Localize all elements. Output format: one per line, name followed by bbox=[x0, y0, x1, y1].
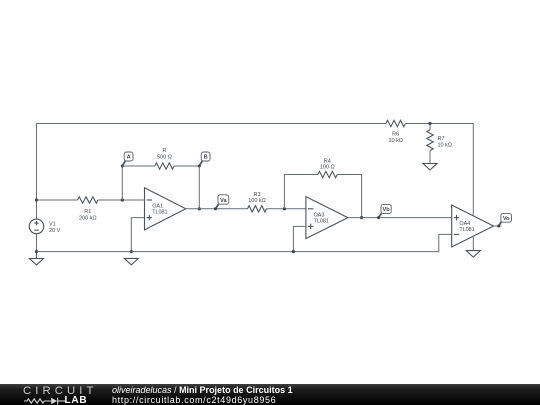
wire A to R bbox=[122, 165, 155, 167]
wire R4 down to OA3 output bbox=[337, 175, 361, 218]
svg-text:B: B bbox=[204, 155, 208, 161]
svg-text:TL081: TL081 bbox=[459, 227, 474, 233]
wire R7 bottom lead bbox=[429, 151, 431, 164]
svg-text:R6: R6 bbox=[392, 132, 399, 138]
ground under OA4 bbox=[466, 251, 480, 258]
wire V1 bottom lead bbox=[36, 234, 38, 252]
wire V1 top lead bbox=[36, 200, 38, 219]
svg-text:TL081: TL081 bbox=[314, 219, 329, 225]
resistor R7 bbox=[427, 130, 452, 151]
node junction OA3 ground rail bbox=[292, 250, 295, 253]
node junction OA1 ground bbox=[130, 250, 133, 253]
svg-text:OA4: OA4 bbox=[459, 221, 470, 227]
wire OA1 output to R3 bbox=[186, 208, 248, 210]
op-amp OA4 bbox=[452, 205, 494, 247]
node junction V1 plus bbox=[35, 198, 38, 201]
svg-text:R7: R7 bbox=[438, 136, 445, 142]
svg-text:A: A bbox=[127, 155, 131, 161]
node A flag bbox=[121, 152, 133, 168]
svg-text:20 V: 20 V bbox=[49, 228, 61, 234]
resistor R3 bbox=[248, 192, 267, 212]
wire R1 to OA1 inverting input bbox=[98, 199, 145, 201]
resistor R bbox=[155, 148, 174, 169]
op-amp OA3 bbox=[306, 197, 348, 239]
CircuitLab logo bbox=[23, 385, 103, 405]
wire OA3 output to OA4 bbox=[348, 217, 452, 219]
svg-text:R4: R4 bbox=[324, 158, 331, 164]
voltage source V1 bbox=[29, 219, 60, 234]
node junction A drop bbox=[121, 198, 124, 201]
wire R to B bbox=[174, 165, 199, 167]
svg-text:100 kΩ: 100 kΩ bbox=[248, 198, 266, 204]
svg-text:OA3: OA3 bbox=[314, 212, 325, 218]
node junction B to output bbox=[198, 207, 201, 210]
resistor R1 bbox=[78, 197, 99, 222]
node junction R4 to OA3 output bbox=[360, 216, 363, 219]
wire top rail left bbox=[37, 124, 386, 201]
svg-text:200 kΩ: 200 kΩ bbox=[79, 216, 97, 222]
svg-text:R3: R3 bbox=[253, 192, 260, 198]
svg-text:10 kΩ: 10 kΩ bbox=[438, 143, 453, 149]
wire OA1 noninverting input bbox=[131, 218, 144, 252]
node junction R6-R7 bbox=[428, 122, 431, 125]
node B flag bbox=[198, 152, 210, 168]
svg-text:100 Ω: 100 Ω bbox=[320, 165, 335, 171]
svg-text:Vb: Vb bbox=[383, 207, 391, 213]
node Va flag bbox=[214, 195, 229, 211]
wire R7 top lead bbox=[429, 124, 431, 130]
svg-text:Vo: Vo bbox=[503, 216, 510, 222]
node junction V1 minus bbox=[35, 250, 38, 253]
svg-text:Va: Va bbox=[220, 198, 227, 204]
svg-text:10 kΩ: 10 kΩ bbox=[388, 138, 403, 144]
op-amp OA1 bbox=[145, 188, 186, 230]
wire top rail right to OA4 V+ pin bbox=[405, 124, 473, 216]
ground under V1 bbox=[30, 252, 44, 265]
resistor R4 bbox=[318, 158, 337, 177]
wire node B vertical bbox=[198, 166, 200, 209]
node junction R4 branch bbox=[283, 207, 286, 210]
ground under R7 bbox=[423, 164, 437, 171]
wire OA3 noninverting input bbox=[293, 226, 306, 251]
wire R4 branch up bbox=[284, 175, 318, 209]
wire OA4 Vminus pin bbox=[472, 237, 474, 251]
footer title text bbox=[112, 386, 293, 405]
resistor R6 bbox=[386, 120, 406, 144]
ground under OA1 bbox=[124, 258, 138, 265]
wire OA4 output bbox=[494, 225, 502, 227]
svg-text:V1: V1 bbox=[49, 221, 56, 227]
svg-text:500 Ω: 500 Ω bbox=[157, 155, 172, 161]
wire bottom ground rail bbox=[37, 234, 452, 251]
footer bar bbox=[0, 384, 540, 405]
node Vb flag bbox=[377, 204, 391, 219]
wire V1 to R1 bbox=[37, 199, 78, 201]
node Vo flag bbox=[497, 213, 511, 227]
svg-text:R: R bbox=[162, 148, 166, 154]
wire node A vertical bbox=[121, 166, 123, 200]
svg-text:TL081: TL081 bbox=[152, 210, 167, 216]
wire R3 to OA3 inverting input bbox=[267, 208, 306, 210]
svg-text:R1: R1 bbox=[84, 209, 91, 215]
svg-text:OA1: OA1 bbox=[152, 204, 163, 210]
